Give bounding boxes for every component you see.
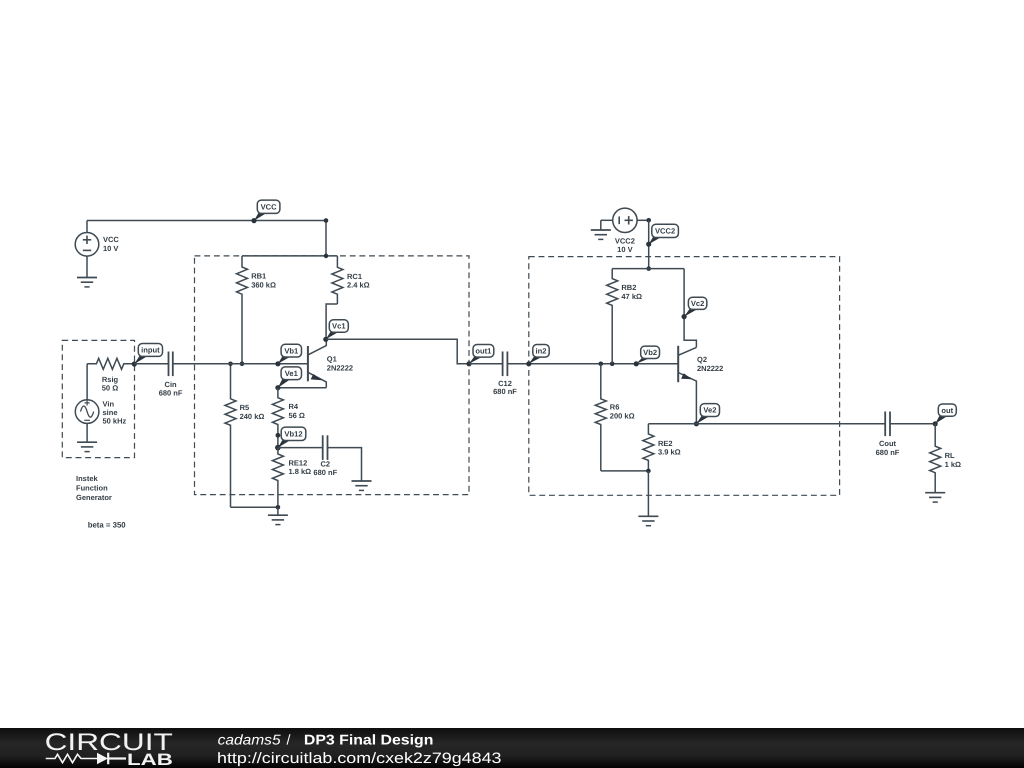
- wire top rail: [87, 220, 326, 222]
- text instek function generator: [76, 474, 112, 502]
- svg-text:Ve1: Ve1: [285, 369, 299, 378]
- resistor R4: [272, 388, 305, 448]
- resistor R6: [595, 364, 634, 471]
- wire Vb12 to C2: [278, 447, 323, 449]
- junction R5 base: [228, 362, 233, 367]
- wire R6 to ground node: [601, 470, 649, 472]
- ground for VCC2: [591, 230, 611, 239]
- svg-text:in2: in2: [536, 346, 547, 355]
- svg-text:http://circuitlab.com/cxek2z79: http://circuitlab.com/cxek2z79g4843: [217, 750, 502, 767]
- resistor RB2: [607, 269, 642, 364]
- junction stage2 rail: [646, 266, 651, 271]
- svg-text:RE2: RE2: [658, 439, 673, 448]
- footer bar: [0, 728, 1024, 768]
- svg-text:beta = 350: beta = 350: [88, 521, 127, 530]
- net flag Vc2: [682, 297, 707, 319]
- wire stage2 emitter run: [648, 423, 885, 425]
- svg-text:Instek: Instek: [76, 474, 99, 483]
- svg-text:50 kHz: 50 kHz: [103, 416, 127, 425]
- svg-text:R5: R5: [240, 403, 250, 412]
- svg-text:Function: Function: [76, 483, 108, 492]
- ground stage 2: [638, 516, 658, 525]
- svg-text:50 Ω: 50 Ω: [102, 384, 118, 393]
- svg-text:R6: R6: [610, 403, 620, 412]
- junction R6 base: [599, 362, 604, 367]
- svg-text:Ve2: Ve2: [703, 406, 716, 415]
- svg-text:680 nF: 680 nF: [159, 389, 183, 398]
- svg-text:47 kΩ: 47 kΩ: [621, 292, 642, 301]
- svg-text:RB1: RB1: [251, 272, 266, 281]
- wire stage1 rail: [242, 255, 337, 257]
- svg-text:VCC2: VCC2: [615, 236, 635, 245]
- ground for RL: [925, 493, 945, 502]
- svg-text:360 kΩ: 360 kΩ: [251, 280, 276, 289]
- transistor Q2: [678, 346, 723, 424]
- svg-text:out: out: [941, 406, 953, 415]
- svg-text:Q2: Q2: [697, 355, 707, 364]
- svg-text:3.9 kΩ: 3.9 kΩ: [658, 448, 681, 457]
- junction VCC2 out: [646, 218, 651, 223]
- voltage source V1 VCC: [75, 221, 119, 278]
- capacitor C12: [469, 352, 517, 397]
- svg-text:out1: out1: [475, 346, 492, 355]
- wire C2 to ground: [328, 448, 362, 481]
- svg-text:Q1: Q1: [327, 355, 337, 364]
- junction top rail: [324, 218, 329, 223]
- svg-text:10 V: 10 V: [103, 244, 118, 253]
- wire stage2 rail: [612, 268, 684, 270]
- svg-text:Vc2: Vc2: [691, 299, 705, 308]
- ground for C2: [352, 481, 372, 490]
- stage 2 dashed box: [529, 257, 840, 496]
- voltage source Vin sine: [75, 364, 126, 442]
- svg-text:680 nF: 680 nF: [876, 448, 900, 457]
- svg-text:2N2222: 2N2222: [327, 364, 353, 373]
- svg-text:input: input: [141, 346, 160, 355]
- net flag Ve2: [694, 404, 720, 427]
- wire Q2 collector drop: [684, 269, 696, 348]
- junction Vb12 node: [275, 445, 281, 451]
- svg-text:200 kΩ: 200 kΩ: [610, 412, 635, 421]
- svg-text:56 Ω: 56 Ω: [289, 411, 305, 420]
- net flag out: [933, 404, 957, 426]
- wire R5 to ground node: [231, 506, 278, 508]
- net flag input: [132, 344, 163, 367]
- svg-text:Cout: Cout: [879, 439, 897, 448]
- svg-text:1 kΩ: 1 kΩ: [945, 460, 961, 469]
- svg-text:VCC: VCC: [103, 235, 119, 244]
- svg-text:680 nF: 680 nF: [493, 387, 517, 396]
- svg-text:Vc1: Vc1: [332, 322, 346, 331]
- resistor RE12: [272, 448, 311, 508]
- wire Q1 emitter run: [278, 387, 326, 389]
- wire VCC rail drop: [325, 221, 327, 256]
- net flag out1: [466, 345, 493, 367]
- svg-text:Rsig: Rsig: [102, 375, 119, 384]
- instek dashed box: [62, 340, 134, 457]
- transistor Q1: [308, 339, 353, 387]
- resistor R5: [225, 364, 264, 508]
- stage 1 dashed box: [195, 256, 470, 495]
- net flag VCC: [251, 200, 280, 223]
- svg-text:VCC: VCC: [261, 202, 278, 211]
- wire VCC2 drop: [648, 220, 650, 268]
- svg-text:RL: RL: [945, 451, 955, 460]
- svg-text:1.8 kΩ: 1.8 kΩ: [289, 467, 312, 476]
- svg-text:VCC2: VCC2: [655, 226, 675, 235]
- resistor Rsig: [87, 358, 134, 392]
- svg-text:Vb12: Vb12: [284, 429, 302, 438]
- svg-text:Vb1: Vb1: [284, 346, 299, 355]
- net flag Vb1: [275, 344, 301, 366]
- svg-text:Generator: Generator: [76, 493, 112, 502]
- ground for Vin: [77, 442, 97, 451]
- wire C12 to Q2 base: [507, 363, 678, 365]
- svg-text:R4: R4: [289, 402, 299, 411]
- capacitor C2: [313, 435, 337, 477]
- text beta: [88, 521, 127, 530]
- net flag Ve1: [275, 367, 301, 390]
- capacitor Cout: [876, 412, 936, 457]
- junction stage1 rail: [324, 254, 329, 259]
- wire RC1 to collector: [326, 304, 337, 339]
- svg-text:680 nF: 680 nF: [313, 468, 337, 477]
- logo resistor-diode symbol: [46, 754, 97, 762]
- net flag Vc1: [323, 320, 348, 342]
- svg-text:2N2222: 2N2222: [697, 364, 723, 373]
- capacitor Cin: [134, 352, 183, 398]
- junction RB1 base: [240, 362, 245, 367]
- svg-text:RB2: RB2: [621, 283, 636, 292]
- wire out1 run: [326, 339, 469, 364]
- svg-text:2.4 kΩ: 2.4 kΩ: [347, 281, 370, 290]
- ground for V1: [77, 278, 97, 287]
- svg-text:RC1: RC1: [347, 272, 362, 281]
- junction RB2 base: [610, 362, 615, 367]
- voltage source VCC2: [601, 208, 649, 254]
- resistor RL: [930, 424, 961, 493]
- net flag VCC2: [646, 224, 678, 247]
- net flag in2: [526, 345, 549, 367]
- net flag Vb2: [634, 346, 660, 366]
- resistor RC1: [332, 256, 370, 304]
- junction stage1 ground node: [276, 505, 281, 510]
- junction stage2 ground node: [646, 469, 651, 474]
- svg-text:LAB: LAB: [127, 751, 173, 768]
- svg-text:Vb2: Vb2: [643, 348, 657, 357]
- wire Cin to Q1 base: [173, 363, 308, 365]
- svg-text:DP3 Final Design: DP3 Final Design: [304, 733, 434, 749]
- svg-text:cadams5: cadams5: [218, 733, 281, 749]
- wire stage2 ground stub: [647, 471, 649, 516]
- svg-text:RE12: RE12: [289, 458, 308, 467]
- svg-text:240 kΩ: 240 kΩ: [240, 412, 265, 421]
- resistor RE2: [643, 424, 681, 471]
- resistor RB1: [237, 256, 276, 364]
- net flag Vb12: [275, 427, 306, 450]
- wire stage1 ground stub: [277, 507, 279, 515]
- svg-text:10 V: 10 V: [617, 245, 632, 254]
- ground stage 1: [268, 515, 288, 524]
- svg-text:/: /: [287, 733, 291, 749]
- svg-text:C2: C2: [321, 459, 331, 468]
